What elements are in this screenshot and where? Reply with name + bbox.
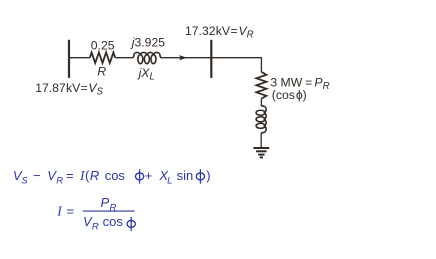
svg-text:(cosϕ): (cosϕ) <box>272 88 307 102</box>
svg-text:j3.925: j3.925 <box>130 36 165 50</box>
svg-text:R: R <box>97 65 106 79</box>
svg-text:0.25: 0.25 <box>91 39 115 53</box>
